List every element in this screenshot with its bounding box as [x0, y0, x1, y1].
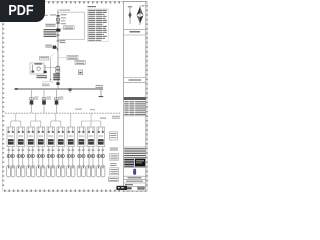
wire feeder group 2 tap [31, 113, 41, 127]
kWh meters + outgoing ways of feeder 3 [27, 147, 35, 177]
meter M1 on riser [30, 89, 39, 113]
meter M3 on riser [55, 89, 64, 113]
node panel exit tick [57, 35, 60, 36]
feeder module MCCB-2 [17, 127, 25, 147]
label text below SA1 [37, 75, 48, 78]
scale bar symbol [128, 6, 132, 24]
project title rows [123, 176, 145, 189]
stamp box (dark, bottom) [116, 186, 127, 190]
kWh meters + outgoing ways of feeder 8 [77, 147, 85, 177]
wire feeder group 1 tap [11, 113, 21, 127]
transformer TX1 [53, 66, 60, 80]
CT CT2 [42, 82, 60, 87]
bus distribution bus (dashed) [5, 112, 121, 114]
feeder module MCCB-1 [7, 127, 15, 147]
isolator S1 [50, 14, 67, 16]
label box NOTE-B [110, 154, 119, 161]
label box NOTE-A [110, 148, 118, 151]
kWh meters + outgoing ways of feeder 4 [37, 147, 45, 177]
surge arrester box SA1 [30, 63, 44, 74]
bus LV main bus [15, 88, 103, 90]
revision table [123, 97, 145, 116]
label box FEEDER-SCHED-2 [109, 132, 117, 140]
kWh meters + outgoing ways of feeder 2 [17, 147, 25, 177]
wire left cluster to feeder [44, 67, 58, 69]
label box FEEDER-SCHED-1 [100, 116, 120, 119]
title band 2 [123, 78, 145, 83]
feeder module MCCB-8 [78, 127, 86, 147]
label box NOTE-D [110, 168, 119, 175]
meter symbol M0 [78, 70, 82, 75]
label box EARTHING [40, 54, 55, 60]
fuse F1 [57, 18, 60, 21]
approvals rows [123, 147, 145, 158]
earth electrode E1 [44, 65, 47, 73]
disconnect switch Q1 [45, 45, 58, 51]
feeder module MCCB-5 [47, 127, 55, 147]
wire feeder drop with marker [57, 40, 66, 43]
kWh meters + outgoing ways of feeder 9 [87, 147, 95, 177]
meter M2 on riser [42, 89, 51, 113]
label box METERING [75, 60, 85, 64]
kWh meters + outgoing ways of feeder 6 [57, 147, 65, 177]
breaker CB1 [44, 29, 61, 37]
kWh meters + outgoing ways of feeder 7 [67, 147, 75, 177]
notes table [87, 9, 108, 42]
kWh meters + outgoing ways of feeder 5 [47, 147, 55, 177]
consultant logo (black box) [135, 159, 145, 167]
feeder module MCCB-6 [57, 127, 65, 147]
node bus section labels [75, 109, 95, 111]
earth conductor drop [50, 58, 52, 82]
kWh meters + outgoing ways of feeder 10 [97, 147, 105, 177]
consultant text block [123, 158, 145, 167]
kWh meters + outgoing ways of feeder 1 [7, 147, 15, 177]
wire feeder group 3 tap [51, 113, 61, 127]
neutral link N1 [69, 88, 72, 93]
label box NOTE-E [109, 177, 119, 181]
PDF badge [0, 0, 45, 22]
CT CT1 [46, 22, 60, 26]
title block frame [123, 2, 145, 191]
notes table header [88, 6, 97, 7]
node component labels (right of line) [61, 17, 66, 24]
title band 1 [123, 29, 145, 35]
feeder module MCCB-9 [87, 127, 95, 147]
client emblem [123, 167, 145, 174]
switchgear enclosure PANEL-1 [58, 12, 85, 39]
feeder module MCCB-10 [97, 127, 105, 147]
label box NOTE-C [110, 163, 117, 166]
feeder module MCCB-3 [27, 127, 35, 147]
label box LV-CABLE [58, 55, 78, 59]
wire feeder 7 tap [70, 113, 72, 127]
node INCOMING-SUPPLY label [60, 10, 71, 11]
feeder module MCCB-7 [67, 127, 75, 147]
label box kWh meter [60, 26, 74, 30]
earth link right end of bus [96, 85, 104, 97]
node annotation (red) [44, 15, 49, 16]
wire main incoming feeder [57, 10, 59, 90]
wire feeder group 4 tap [81, 113, 101, 127]
north arrow [137, 5, 145, 25]
feeder module MCCB-4 [37, 127, 45, 147]
